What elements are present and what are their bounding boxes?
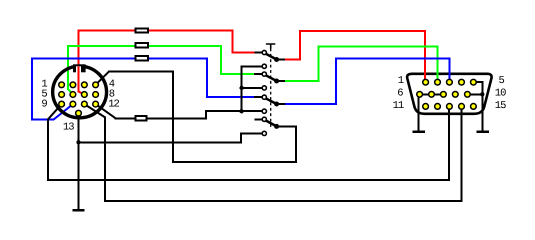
svg-text:6: 6	[397, 88, 403, 100]
junction net-A lower	[239, 109, 243, 113]
DIN pin 6	[70, 92, 76, 98]
svg-text:13: 13	[63, 121, 74, 133]
switch S1 common dot	[274, 57, 279, 62]
wire black: diagonal from DIN pin12	[96, 104, 116, 118]
DIN pin 1	[59, 82, 65, 88]
wire black: DIN pin13 vertical to ground	[78, 113, 80, 210]
VGA pin 15	[471, 104, 477, 110]
wire blue: vertical down into VGA pin 3	[449, 58, 451, 82]
junction net-A upper	[239, 86, 243, 90]
wire black: DIN pin4 horizontal run	[108, 71, 174, 73]
switch S2 common dot	[274, 79, 279, 84]
DIN pin 12	[93, 101, 99, 107]
DIN pin 8	[93, 92, 99, 98]
switch S1 upper contact	[262, 50, 266, 54]
wire black: VGA pin14 vertical inside shell	[461, 106, 463, 115]
wire red: horizontal into switch 1 contact (red part)	[231, 52, 254, 54]
svg-text:10: 10	[495, 88, 506, 100]
ground bar VGA right	[477, 130, 489, 133]
wire black: net-A step vertical	[205, 110, 207, 119]
wire black: stub into switch 1 contact	[255, 52, 263, 54]
wire black: vsync long horizontal	[104, 200, 462, 202]
VGA pin 9	[452, 91, 458, 97]
wire black: net-A horizontal from resistor R4 left side	[115, 117, 135, 119]
wire blue: horizontal right of resistor R3 to corner	[148, 58, 208, 60]
wire blue: re-draw into VGA pin3 over shell	[449, 71, 451, 82]
wire black: VGA ground bus pins 6-7-8 re-draw	[420, 93, 444, 95]
wire green: vertical down into VGA pin 2	[436, 45, 438, 82]
wire red: horizontal left of resistor R1	[78, 30, 136, 32]
wire black: net-A tap to switch 1 lower contact	[241, 65, 263, 67]
wire black: diagonal from DIN pin9	[48, 104, 62, 119]
wire black: stub out of switch 1 common dot	[279, 59, 286, 61]
wire black: bottom horizontal to switch 4 loop	[172, 161, 297, 163]
wire blue: vertical up	[335, 58, 337, 105]
switch S4 common dot	[274, 124, 279, 129]
wire green: horizontal into switch 2 contact	[220, 73, 254, 75]
wire blue: horizontal left of resistor R3	[31, 58, 136, 60]
svg-text:5: 5	[499, 75, 505, 87]
ground bar VGA left	[413, 130, 425, 133]
switch gang actuator T-bar	[266, 44, 275, 49]
svg-text:12: 12	[108, 99, 119, 111]
wire black: VGA pin13 vertical inside shell	[448, 106, 450, 115]
wire black: VGA ground bus pins 6-7-8	[420, 93, 444, 95]
wire green: vertical drop to DIN pin6	[67, 45, 69, 90]
switch S1 lower contact	[262, 64, 266, 68]
wire blue: horizontal into switch 3 contact	[206, 96, 254, 98]
switch gang dashed link	[270, 49, 272, 130]
wire black: stub into switch 2 contact	[254, 73, 262, 75]
wire black: vsync vertical up into VGA pin 14	[461, 106, 463, 202]
DIN pin 4	[93, 82, 99, 88]
wire black: stub into switch 3 contact	[254, 96, 262, 98]
wire black: net-A vertical bus	[241, 65, 243, 111]
wire black: VGA pin10 horizontal re-draw	[467, 93, 483, 95]
wire green: horizontal right of resistor R2 to corner	[148, 45, 222, 47]
DIN pin 5	[59, 92, 65, 98]
wire black: pin13 net vertical up to switch 4 lower contact	[240, 132, 242, 143]
DIN pin 2	[70, 82, 76, 88]
wire black: DIN pin4 vertical down	[172, 71, 174, 163]
wire black: pin13 net horizontal to switch 4 lower contact	[240, 132, 262, 134]
VGA pin 10	[465, 91, 471, 97]
DIN pin 7	[82, 92, 88, 98]
svg-text:1: 1	[398, 75, 404, 87]
switch S4 lower contact	[262, 131, 266, 135]
DIN pin 13	[76, 110, 82, 116]
resistor R4	[136, 116, 147, 121]
DIN key notch slot	[76, 66, 81, 74]
wire black: hsync long horizontal	[47, 179, 450, 181]
wire black: VGA pin5 horizontal to right vertical	[473, 81, 483, 83]
wire black: stub out of switch 3 common dot	[279, 103, 286, 105]
wire red: long horizontal to VGA pin 1	[299, 30, 426, 32]
wire blue: far-left vertical	[31, 58, 33, 121]
wire green: horizontal left of resistor R2	[67, 45, 136, 47]
wire green: vertical down to switch 2 input	[220, 45, 222, 75]
wire red: vertical down to switch 1 input	[231, 30, 233, 54]
wire red: diagonal stub to DIN pin7	[79, 92, 85, 95]
wire black: net-A tap to switch 2 lower contact	[241, 87, 263, 89]
VGA pin 4	[459, 79, 465, 85]
wire black: vertical up to switch 4 output level	[295, 125, 297, 162]
ground bar DIN pin13	[73, 209, 85, 212]
VGA pin 6	[417, 91, 423, 97]
switch S2 lower contact	[262, 86, 266, 90]
wire black: VGA pin6 drop inside shell	[417, 94, 419, 115]
VGA pin 14	[459, 104, 465, 110]
wire red: switch 1 output horizontal	[285, 59, 301, 61]
switch S3 lower contact	[262, 109, 266, 113]
svg-text:11: 11	[393, 100, 404, 112]
VGA pin 5	[471, 79, 477, 85]
switch S4 wiper	[266, 120, 277, 126]
svg-text:9: 9	[41, 98, 47, 110]
wire black: VGA pin6 drop to shell ground	[417, 94, 419, 131]
resistor R2	[136, 43, 148, 48]
wire black: hsync vertical below DIN pin9	[47, 119, 49, 182]
wire black: stub into switch 4 upper contact	[254, 118, 262, 120]
VGA pin 3	[447, 79, 453, 85]
svg-text:15: 15	[495, 100, 506, 112]
wire red: DIN pin7 vertical drop through key notch	[78, 30, 80, 93]
wire black: stub out of switch 2 common dot	[279, 80, 286, 82]
switch S3 upper contact	[262, 95, 266, 99]
wire red: vertical down into VGA pin 1	[424, 30, 426, 82]
switch S2 upper contact	[262, 72, 266, 76]
wire green: re-draw into VGA pin2 over shell	[436, 71, 438, 82]
DIN key bump	[73, 64, 86, 72]
wire green: vertical up	[317, 45, 319, 82]
switch S4 upper contact	[262, 117, 266, 121]
VGA pin 1	[423, 79, 429, 85]
wire green: diagonal stub to DIN pin6	[68, 89, 73, 95]
wire red: vertical up	[299, 30, 301, 61]
VGA pin 2	[435, 79, 441, 85]
wire black: pin13 net horizontal	[79, 141, 243, 143]
DIN pin 9	[59, 101, 65, 107]
junction VGA pin10 to ground vertical	[480, 92, 484, 96]
wire black: diagonal from DIN pin11	[84, 104, 105, 117]
wire green: long horizontal to VGA pin 2	[317, 45, 438, 47]
resistor R3	[136, 56, 148, 60]
wire blue: bottom horizontal toward DIN pin10	[31, 119, 53, 121]
wire black: switch 4 output horizontal from common dot	[279, 125, 297, 127]
wire black: diagonal from DIN pin4	[96, 72, 109, 85]
switch S1 wiper	[266, 54, 277, 60]
DIN pin 10	[70, 101, 76, 107]
VGA pin 8	[441, 91, 447, 97]
wire red: segment through DIN key notch	[78, 66, 80, 74]
switch S3 common dot	[274, 102, 279, 107]
wire black: VGA right ground vertical	[481, 81, 483, 132]
switch S3 wiper	[266, 98, 277, 104]
DIN connector U1 ring	[53, 66, 107, 118]
wire black: hsync vertical up into VGA pin 13	[448, 106, 450, 181]
wire red: horizontal right of resistor R1 to corner	[148, 30, 234, 32]
wire blue: long horizontal to VGA pin 3	[335, 58, 451, 60]
wire black: net-A horizontal to switch 3 lower contact	[205, 110, 263, 112]
VGA connector U2 shell	[407, 74, 492, 114]
VGA pin 13	[447, 104, 453, 110]
switch S2 wiper	[266, 75, 277, 81]
DIN pin 3	[82, 82, 88, 88]
wire blue: diagonal to DIN pin10	[53, 104, 73, 120]
wire black: VGA pin10 horizontal to right vertical	[467, 93, 483, 95]
wire black: VGA pin5 horizontal re-draw	[473, 81, 483, 83]
DIN pin 11	[82, 101, 88, 107]
wire black: vsync vertical below DIN pin11	[104, 117, 106, 203]
VGA pin 11	[423, 104, 429, 110]
wire red: re-draw into VGA pin1 over shell	[424, 71, 426, 82]
wire black: net-A horizontal right of resistor R4	[147, 117, 207, 119]
VGA pin 7	[429, 91, 435, 97]
wire blue: switch 3 output horizontal	[285, 103, 337, 105]
wire blue: vertical down to switch 3 input	[206, 58, 208, 99]
junction pin13 net	[76, 140, 80, 144]
VGA pin 12	[435, 104, 441, 110]
resistor R1	[136, 28, 148, 32]
wire green: switch 2 output horizontal	[285, 80, 319, 82]
